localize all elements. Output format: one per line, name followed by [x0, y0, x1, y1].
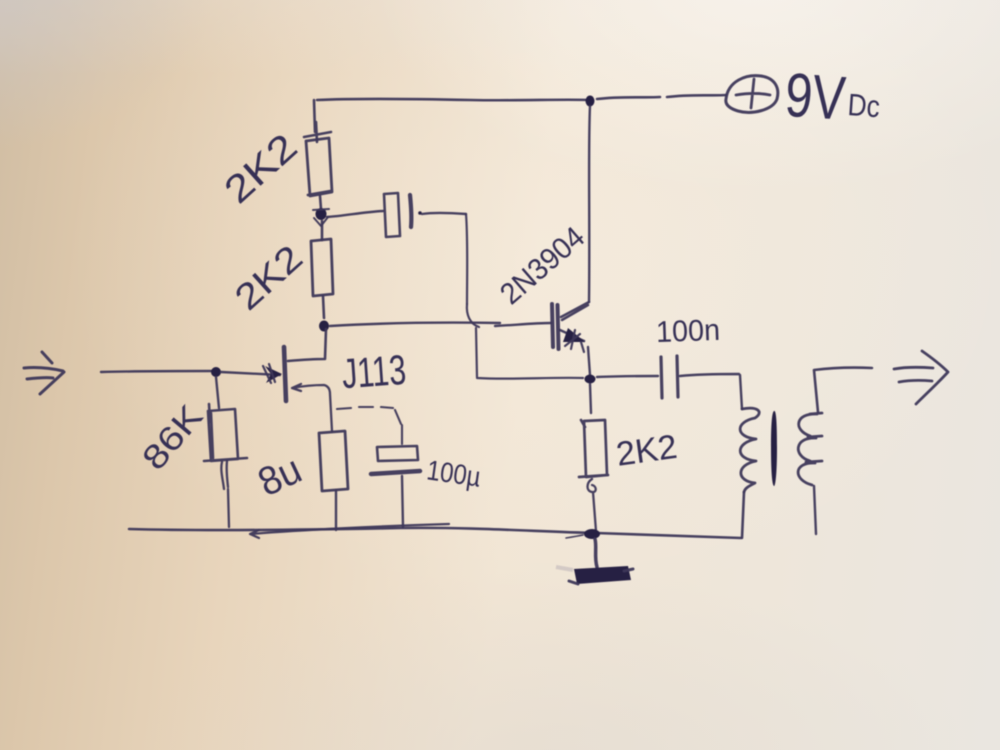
label 2K2 R2: [226, 237, 310, 318]
svg-text:100µ: 100µ: [425, 454, 483, 492]
transformer T1 core: [771, 411, 777, 486]
wire R1 to node A: [320, 196, 321, 209]
label 100u: [425, 454, 483, 492]
wire C1 to corner: [418, 211, 422, 215]
label 86K: [135, 398, 211, 478]
J113 drain line: [288, 329, 326, 361]
wire node A to R2: [321, 221, 324, 240]
battery terminal circle +: [726, 76, 778, 113]
output arrow: [894, 351, 948, 404]
wire R4 to rail: [335, 491, 337, 530]
label 2N3904: [494, 221, 591, 312]
wire node D to C3: [597, 376, 658, 377]
label J113: [340, 346, 407, 397]
resistor R1 2K2: [306, 138, 332, 196]
svg-text:86K: 86K: [135, 398, 211, 478]
capacitor C2 bottom plate: [371, 471, 420, 474]
node top rail (collector junction): [586, 96, 595, 107]
wire R5 to rail with loop: [588, 479, 597, 531]
svg-text:2K2: 2K2: [614, 428, 680, 474]
node C input: [211, 367, 221, 377]
svg-text:2N3904: 2N3904: [494, 221, 591, 312]
svg-text:2K2: 2K2: [226, 237, 310, 318]
wire R3 to rail: [221, 461, 229, 527]
transistor Q2 collector diagonal: [561, 302, 589, 320]
wire rail second stroke with arrow: [250, 524, 449, 538]
resistor R4 8u source: [319, 431, 348, 491]
wire gate: [221, 372, 280, 375]
capacitor C2 100u top plate: [377, 446, 418, 461]
wire secondary bottom stub: [814, 486, 816, 534]
node A: [316, 208, 327, 220]
gate arrowhead: [265, 366, 282, 383]
capacitor C1 left plate: [384, 193, 400, 237]
ground symbol: [574, 566, 631, 584]
label 2K2 R1: [217, 126, 306, 212]
label 9VDC: [783, 61, 883, 136]
ground junction node: [584, 529, 600, 539]
svg-text:J113: J113: [340, 346, 407, 397]
Q2 base bar: [552, 304, 559, 349]
svg-text:100n: 100n: [655, 314, 720, 349]
transformer T1 secondary coil: [798, 413, 822, 485]
wire C2 to rail: [402, 476, 403, 527]
node B: [319, 321, 329, 332]
wire lead R1 top: [304, 100, 331, 142]
Q2 emitter with arrow: [560, 330, 584, 341]
wire curl join: [467, 304, 479, 327]
wire bottom rail: [129, 528, 741, 538]
resistor R2 2K2: [311, 239, 333, 296]
svg-text:8u: 8u: [252, 447, 309, 505]
label 8u: [252, 447, 309, 505]
wire node D to R5: [590, 384, 591, 413]
label 100n: [655, 314, 720, 349]
svg-text:2K2: 2K2: [217, 126, 306, 212]
wire junction to emitter node: [476, 328, 583, 379]
J113 source line: [292, 384, 332, 431]
transistor Q1 J113 gate bar: [284, 347, 286, 401]
wire emitter vertical: [588, 347, 590, 375]
wire base (node B to Q1 base): [330, 323, 551, 326]
wire node C to R3: [216, 377, 219, 408]
wire ground stem: [595, 539, 597, 567]
wire C3 to transformer: [680, 374, 742, 409]
input arrow: [24, 352, 64, 394]
capacitor C3 100n plates: [661, 356, 678, 398]
svg-text:9V: 9V: [783, 61, 848, 134]
wire dashed to C2: [337, 407, 402, 444]
wire top rail left: [317, 99, 588, 100]
wire feedback vertical: [466, 214, 467, 304]
wire collector vertical: [589, 106, 590, 302]
svg-text:Dc: Dc: [847, 87, 881, 124]
wire node A to C1: [327, 211, 383, 217]
transformer T1 primary coil: [740, 408, 759, 492]
resistor R3 86K: [204, 404, 247, 461]
wire R2 to node B: [323, 296, 324, 318]
resistor R5 2K2 emitter: [579, 420, 608, 477]
label 2K2 R5: [614, 428, 680, 474]
wire primary bottom: [742, 492, 744, 538]
wire secondary top to output: [814, 368, 872, 412]
wire input: [101, 371, 212, 372]
node D emitter: [585, 375, 596, 384]
wire top rail right: [597, 95, 726, 99]
capacitor C1 right plate: [410, 195, 411, 227]
